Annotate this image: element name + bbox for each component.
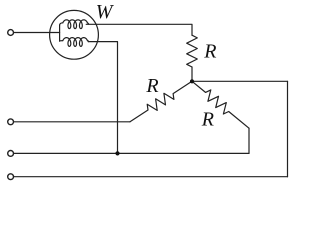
wattmeter voltage coil (bottom) xyxy=(60,40,63,43)
wire terminal 2 to resistor R2 xyxy=(14,121,130,123)
wire R3 down to terminal 3 wire xyxy=(248,128,250,153)
terminal 2 xyxy=(8,119,14,125)
wire terminal 1 to wattmeter xyxy=(14,32,60,34)
resistor R2 (left diagonal) xyxy=(130,81,192,122)
wire terminal 3 to R3 xyxy=(14,152,249,154)
svg-text:R: R xyxy=(145,75,158,97)
resistor R3 (right diagonal) xyxy=(192,81,249,128)
svg-text:R: R xyxy=(201,109,214,131)
terminal 1 xyxy=(8,30,14,36)
junction dot on terminal 3 wire xyxy=(115,151,119,155)
wire R1 to node xyxy=(191,67,193,81)
wire wattmeter top coil to resistor R1 xyxy=(86,24,192,35)
wattmeter current coil (top) xyxy=(60,23,63,25)
terminal 4 xyxy=(8,174,14,180)
bottom wire terminal 4 to right edge xyxy=(14,176,288,178)
terminal 3 xyxy=(8,151,14,157)
wire node to right edge xyxy=(192,80,288,82)
resistor R1 (vertical) xyxy=(187,35,198,67)
coil common left lead xyxy=(59,25,61,41)
wire wattmeter bottom coil down to terminal 3 wire xyxy=(88,42,117,154)
right vertical wire xyxy=(287,81,289,176)
node junction dot xyxy=(190,79,194,83)
wattmeter W circle xyxy=(50,10,99,59)
svg-text:W: W xyxy=(96,1,115,23)
svg-text:R: R xyxy=(203,41,216,63)
